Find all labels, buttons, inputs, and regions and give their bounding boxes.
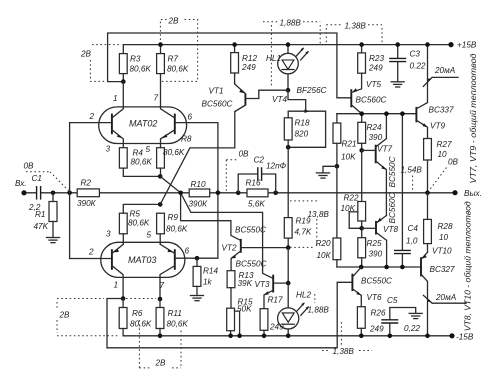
node R23 top on rail: [359, 42, 364, 47]
node C3 top on rail: [395, 42, 400, 47]
svg-text:20мА: 20мА: [435, 293, 457, 302]
resistor R9 80,6K: [157, 213, 165, 234]
svg-text:390К: 390К: [77, 199, 97, 208]
node R24 top: [359, 111, 364, 116]
svg-text:C1: C1: [32, 174, 42, 183]
svg-text:R26: R26: [371, 309, 386, 318]
svg-text:Вх.: Вх.: [15, 179, 27, 188]
svg-text:BC550C: BC550C: [235, 226, 266, 235]
svg-text:R11: R11: [168, 309, 182, 318]
wire MAT03 pin2 lead: [70, 258, 112, 260]
svg-text:VT1: VT1: [209, 87, 224, 96]
svg-text:1,88В: 1,88В: [308, 306, 330, 315]
resistor R3 80,6K: [122, 45, 124, 54]
svg-text:BC560C: BC560C: [202, 100, 233, 109]
svg-text:R5: R5: [130, 210, 141, 219]
wire MAT02 pin1 lead: [122, 82, 124, 107]
node C4 top: [400, 111, 405, 116]
resistor R27 10: [424, 139, 432, 161]
node R19 bottom / VT2 base: [286, 245, 291, 250]
svg-text:12пФ: 12пФ: [266, 162, 287, 171]
transistor VT8 BC560C: [375, 221, 377, 235]
node R21 bottom junction: [335, 164, 340, 169]
svg-text:390: 390: [369, 133, 383, 142]
svg-text:BC550C: BC550C: [236, 259, 267, 268]
resistor R7 80,6K: [160, 45, 162, 54]
svg-text:R20: R20: [316, 239, 331, 248]
MAT03 left transistor: [111, 249, 113, 270]
node C2 right branch: [273, 191, 278, 196]
svg-text:R17: R17: [268, 296, 283, 305]
svg-text:R2: R2: [81, 179, 92, 188]
node R26 bottom on rail: [359, 334, 364, 339]
node R25 bottom: [359, 265, 364, 270]
capacitor C3 0.22: [397, 45, 399, 59]
svg-text:2В: 2В: [59, 311, 71, 320]
svg-text:R6: R6: [132, 309, 143, 318]
dual transistor MAT02: [99, 107, 187, 144]
svg-text:1,54В: 1,54В: [401, 166, 423, 175]
node C4 bottom: [400, 265, 405, 270]
svg-text:R9: R9: [168, 213, 179, 222]
capacitor C1: [37, 185, 40, 201]
svg-text:HL2: HL2: [296, 291, 311, 300]
svg-text:6: 6: [185, 247, 190, 256]
HL2 light arrows: [297, 303, 304, 311]
svg-text:VT3: VT3: [255, 280, 270, 289]
node HL1 top on rail: [286, 42, 291, 47]
resistor R26 249: [357, 307, 365, 329]
svg-text:1k: 1k: [203, 278, 213, 287]
svg-text:-15В: -15В: [456, 332, 474, 341]
node R12 top on rail: [232, 42, 237, 47]
svg-text:VT10: VT10: [432, 247, 452, 256]
svg-text:249: 249: [369, 325, 384, 334]
svg-text:20мА: 20мА: [434, 66, 456, 75]
node R11 bottom on -15V rail: [158, 334, 163, 339]
ground under R1: [47, 237, 60, 239]
resistor R25 390: [361, 228, 363, 237]
resistor R8 80,6K: [157, 148, 165, 168]
wire MAT02 pin6 to feedback node: [175, 123, 218, 193]
wire -15V rail: [123, 335, 452, 337]
node R17 bottom on rail: [262, 334, 267, 339]
MAT02 right transistor: [174, 114, 176, 135]
svg-text:13,8В: 13,8В: [308, 210, 330, 219]
node input/base bus junction: [67, 191, 72, 196]
node midline junction (R10 left): [178, 191, 183, 196]
transistor VT6 BC550C: [351, 274, 353, 291]
svg-text:1: 1: [114, 281, 119, 290]
svg-text:80,6K: 80,6K: [163, 148, 185, 157]
capacitor C2 12pF: [238, 174, 257, 193]
svg-text:10: 10: [439, 233, 449, 242]
resistor R20 10K: [336, 166, 338, 238]
trimmer R15 50K: [227, 308, 235, 331]
wire signal midline: [24, 192, 455, 194]
resistor R10 390K: [189, 189, 210, 197]
LED HL2: [287, 283, 289, 308]
svg-text:R4: R4: [133, 149, 144, 158]
node R15 tap on rail: [237, 334, 242, 339]
node +15V terminal: [448, 42, 453, 47]
resistor R17 249: [260, 309, 268, 331]
svg-text:0.22: 0.22: [410, 62, 426, 71]
svg-text:820: 820: [295, 130, 309, 139]
svg-text:10K: 10K: [341, 153, 356, 162]
node R22 bottom / VT8 base: [359, 226, 364, 231]
svg-text:R3: R3: [130, 55, 141, 64]
svg-text:Вых.: Вых.: [464, 189, 482, 198]
resistor R12 249: [234, 45, 236, 53]
svg-text:R1: R1: [35, 210, 45, 219]
svg-text:2В: 2В: [80, 50, 92, 59]
svg-text:0В: 0В: [239, 150, 250, 159]
svg-text:80,6K: 80,6K: [167, 320, 189, 329]
ground under C3: [391, 81, 404, 83]
svg-text:80,6K: 80,6K: [131, 158, 153, 167]
resistor R1 47K: [52, 193, 54, 202]
trimmer R22 10K: [358, 202, 366, 222]
wire MAT03 pin6 to feedback node: [175, 193, 218, 258]
svg-text:R27: R27: [437, 140, 452, 149]
capacitor C4 1,0 on emitter bus: [401, 114, 403, 251]
MAT02 left transistor: [111, 114, 113, 135]
node VT8 collector: [384, 265, 389, 270]
svg-text:3: 3: [106, 145, 111, 154]
svg-text:R23: R23: [369, 54, 384, 63]
svg-text:BC337: BC337: [429, 106, 454, 115]
node VT10 collector on rail: [425, 334, 430, 339]
node VT9 collector on rail: [425, 42, 430, 47]
wire VAS upper node line: [336, 114, 338, 123]
svg-text:4,7K: 4,7K: [295, 228, 312, 237]
svg-text:1,38В: 1,38В: [333, 347, 355, 356]
svg-text:C3: C3: [410, 50, 421, 59]
svg-text:BF256C: BF256C: [297, 86, 327, 95]
svg-text:+15В: +15В: [457, 41, 477, 50]
svg-text:BC550C: BC550C: [388, 156, 397, 187]
node -15V terminal: [449, 333, 454, 338]
node HL1 bottom / VT1 base: [286, 88, 291, 93]
svg-text:2: 2: [88, 248, 94, 257]
wire first-stage bottom loop (R6 top to VT6 base): [107, 282, 352, 348]
node R3 bottom / pin1 junction: [121, 79, 126, 84]
svg-text:BC560C: BC560C: [388, 192, 397, 223]
node R24 bottom / VT7 base: [359, 148, 364, 153]
node R7 top on +15V rail: [158, 42, 163, 47]
svg-text:7: 7: [160, 281, 165, 290]
svg-text:249: 249: [368, 64, 383, 73]
svg-text:VT4: VT4: [272, 95, 287, 104]
svg-text:0В: 0В: [448, 158, 459, 167]
svg-text:80,6K: 80,6K: [130, 65, 152, 74]
svg-text:0,22: 0,22: [404, 324, 420, 333]
svg-text:1,0: 1,0: [406, 237, 418, 246]
svg-text:1: 1: [113, 94, 118, 103]
svg-text:2В: 2В: [168, 17, 180, 26]
svg-text:47K: 47K: [34, 222, 49, 231]
HL1 light arrows: [296, 48, 303, 56]
node input terminal Вх.: [21, 190, 26, 195]
resistor R11 80,6K: [159, 299, 161, 308]
svg-text:R22: R22: [344, 194, 359, 203]
svg-text:VT7: VT7: [377, 145, 392, 154]
node MAT03 pin7 junction: [158, 297, 163, 302]
LED HL1: [287, 45, 289, 54]
svg-text:1,38В: 1,38В: [345, 22, 367, 31]
resistor R14 1k: [195, 256, 200, 261]
svg-text:R24: R24: [367, 123, 382, 132]
JFET VT4 BF256C with R18 820: [288, 90, 306, 111]
node MAT03 pin1 junction: [121, 296, 126, 301]
svg-text:R25: R25: [367, 239, 382, 248]
svg-text:R10: R10: [191, 180, 206, 189]
svg-text:50K: 50K: [237, 305, 252, 314]
wire VT3 collector node chain: [287, 248, 289, 284]
svg-text:VT7, VT9 - общий теплоотвод: VT7, VT9 - общий теплоотвод: [469, 53, 478, 184]
wire +15V rail: [124, 44, 452, 46]
node R18 bottom junction: [286, 145, 291, 150]
resistor R6 80,6K: [122, 299, 124, 308]
svg-text:249: 249: [241, 63, 256, 72]
svg-text:390: 390: [369, 250, 383, 259]
node output terminal: [452, 190, 457, 195]
resistor R2 390K: [77, 189, 99, 197]
transistor VT2 BC550C: [240, 239, 242, 253]
transistor VT5 BC560C: [350, 89, 352, 107]
ground under R14: [191, 295, 204, 297]
wire first-stage top loop (R3 bottom to VT5 base): [108, 33, 351, 98]
svg-text:390К: 390К: [189, 200, 209, 209]
svg-text:R28: R28: [438, 222, 453, 231]
resistor R19 4,7K: [287, 147, 289, 217]
svg-text:R14: R14: [203, 267, 218, 276]
svg-text:5: 5: [147, 231, 152, 240]
wire cross-coupling diagonal A (R4/R8 node to VT3 base line): [160, 176, 273, 278]
svg-text:5,6K: 5,6K: [248, 200, 265, 209]
capacitor C5 0,22 with ground: [389, 323, 391, 336]
svg-text:VT6: VT6: [367, 293, 382, 302]
svg-text:80,6K: 80,6K: [130, 320, 152, 329]
svg-text:R21: R21: [342, 140, 357, 149]
wire R24-R22 vertical: [361, 150, 363, 201]
resistor R21 10K: [333, 123, 341, 143]
svg-text:C2: C2: [254, 156, 265, 165]
svg-text:R18: R18: [295, 119, 310, 128]
svg-text:2В: 2В: [155, 359, 167, 368]
MAT03 right transistor: [174, 249, 176, 270]
svg-text:R16: R16: [246, 179, 261, 188]
node VT3 collector junction: [286, 281, 291, 286]
svg-text:R7: R7: [168, 55, 179, 64]
wire VT2 collector path to midline node: [181, 193, 241, 241]
transistor VT9 BC337: [415, 107, 417, 122]
svg-text:80,6K: 80,6K: [128, 219, 150, 228]
node R5/R9 emitter junction: [158, 202, 163, 207]
svg-text:BC560C: BC560C: [356, 96, 387, 105]
wire cross-coupling diagonal B (R5/R9 node to VT1 collector): [160, 105, 245, 204]
svg-text:0В: 0В: [24, 162, 35, 171]
svg-text:7: 7: [154, 94, 159, 103]
resistor R5 80,6K: [119, 213, 127, 234]
resistor R13 39K: [227, 271, 235, 288]
transistor VT1 BC560C: [244, 93, 246, 105]
resistor R23 249: [361, 45, 363, 53]
svg-text:HL1: HL1: [266, 54, 281, 63]
resistor R16 5,6K: [247, 189, 268, 197]
wire VAS lower node line: [337, 266, 421, 268]
resistor R4 80,6K: [119, 148, 127, 168]
svg-text:VT2: VT2: [222, 244, 237, 253]
resistor R28 10: [427, 193, 429, 220]
svg-text:80,6K: 80,6K: [166, 225, 188, 234]
svg-text:80,6K: 80,6K: [167, 65, 189, 74]
svg-text:VT8: VT8: [383, 225, 398, 234]
svg-text:5: 5: [146, 145, 151, 154]
svg-text:MAT02: MAT02: [129, 119, 157, 129]
node HL2 bottom on rail: [286, 334, 291, 339]
svg-text:VT5: VT5: [366, 80, 381, 89]
dual transistor MAT03: [101, 242, 185, 277]
svg-text:10К: 10К: [317, 251, 332, 260]
svg-text:10K: 10K: [341, 204, 356, 213]
svg-text:VT8, VT10 - общий теплоотвод: VT8, VT10 - общий теплоотвод: [464, 201, 473, 331]
svg-text:39K: 39K: [238, 279, 253, 288]
svg-text:BC327: BC327: [430, 265, 455, 274]
transistor VT10 BC327: [420, 257, 422, 276]
wire MAT02 pin2 lead: [70, 122, 112, 124]
transistor VT7 BC550C: [375, 145, 377, 164]
node C2 left branch: [236, 191, 241, 196]
node VT7 collector: [384, 111, 389, 116]
node C1/R1 junction: [51, 191, 56, 196]
svg-text:R8: R8: [181, 135, 192, 144]
node R4/R8 emitter junction: [158, 174, 163, 179]
transistor VT3 BC550C: [272, 275, 274, 293]
svg-text:3: 3: [106, 230, 111, 239]
svg-text:VT9: VT9: [430, 122, 445, 131]
svg-text:MAT03: MAT03: [128, 255, 156, 265]
svg-text:10: 10: [438, 150, 448, 159]
svg-text:BC550C: BC550C: [361, 277, 392, 286]
node C5 bottom on rail: [388, 334, 393, 339]
node feedback junction on midline: [216, 191, 221, 196]
node output junction: [425, 190, 430, 195]
svg-text:C4: C4: [408, 224, 419, 233]
svg-text:6: 6: [188, 113, 193, 122]
svg-text:2: 2: [89, 112, 95, 121]
node R15 bottom on rail: [228, 334, 233, 339]
resistor R24 390: [361, 114, 363, 123]
wire base bus vertical: [69, 123, 71, 259]
ground at R21/R20: [323, 166, 337, 173]
svg-text:C5: C5: [387, 296, 398, 305]
svg-text:R12: R12: [242, 54, 257, 63]
svg-text:1,88В: 1,88В: [280, 19, 302, 28]
